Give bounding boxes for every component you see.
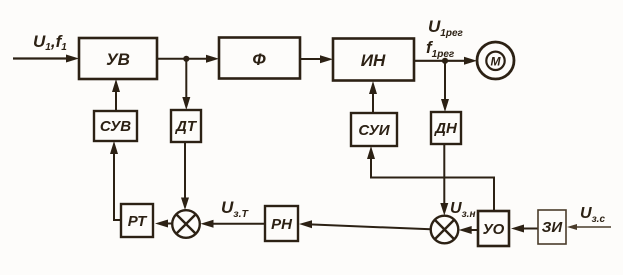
svg-text:УВ: УВ xyxy=(106,50,130,69)
node junction after УВ xyxy=(183,56,189,62)
block Ф xyxy=(219,38,300,79)
wire УО feedback up to СУИ xyxy=(367,146,494,211)
label U1рег xyxy=(428,17,464,39)
block СУИ xyxy=(351,113,397,146)
svg-text:ДН: ДН xyxy=(433,120,458,137)
wire УО to summing node 2 xyxy=(459,226,478,234)
wire РН to summing node 1 xyxy=(201,220,266,228)
summing node 1 (x-circle) xyxy=(172,210,200,238)
wire summing node 1 to РТ xyxy=(155,220,172,228)
summing node 2 (x-circle) xyxy=(431,216,459,244)
svg-text:ДТ: ДТ xyxy=(174,118,198,135)
label Uз.н xyxy=(450,200,475,220)
block ЗИ xyxy=(538,210,566,244)
svg-text:М: М xyxy=(491,55,502,69)
block ИН xyxy=(333,39,414,81)
svg-text:ЗИ: ЗИ xyxy=(542,219,564,236)
block ДТ xyxy=(171,110,201,142)
wire ИН to motor М xyxy=(414,57,477,65)
wire Ф to ИН xyxy=(300,55,333,63)
label Uз.с xyxy=(580,205,605,225)
label Uз.т xyxy=(221,198,250,220)
block РН xyxy=(265,206,298,241)
svg-text:СУВ: СУВ xyxy=(100,118,131,135)
wire СУИ up to ИН xyxy=(369,81,377,113)
block СУВ xyxy=(94,111,137,141)
block ДН xyxy=(431,112,461,144)
block УВ xyxy=(79,38,157,79)
svg-text:СУИ: СУИ xyxy=(358,122,390,139)
wire СУВ up to УВ xyxy=(112,79,120,111)
wire junction down to ДН xyxy=(441,61,449,112)
wire ДТ down to summing node 1 xyxy=(181,142,189,210)
svg-text:РН: РН xyxy=(271,216,293,233)
block РТ xyxy=(121,204,153,237)
wire input Uз.с into ЗИ xyxy=(567,224,611,230)
wire junction down to ДТ xyxy=(182,59,190,110)
wire РТ output to СУВ xyxy=(110,141,121,220)
node junction before М xyxy=(442,58,448,64)
wire ДН down to summing node 2 xyxy=(440,144,448,216)
svg-text:РТ: РТ xyxy=(128,213,148,230)
wire input U1,f1 into УВ xyxy=(13,55,79,63)
wire summing node 2 to РН xyxy=(299,220,431,229)
wire ЗИ to УО xyxy=(511,225,538,233)
motor М xyxy=(477,42,514,79)
wire УВ to Ф xyxy=(157,55,219,63)
svg-text:УО: УО xyxy=(483,221,505,238)
block УО xyxy=(478,211,509,246)
label f1рег xyxy=(426,38,455,60)
label U1,f1 xyxy=(33,32,67,53)
svg-text:Ф: Ф xyxy=(252,50,266,69)
svg-text:ИН: ИН xyxy=(361,51,386,70)
